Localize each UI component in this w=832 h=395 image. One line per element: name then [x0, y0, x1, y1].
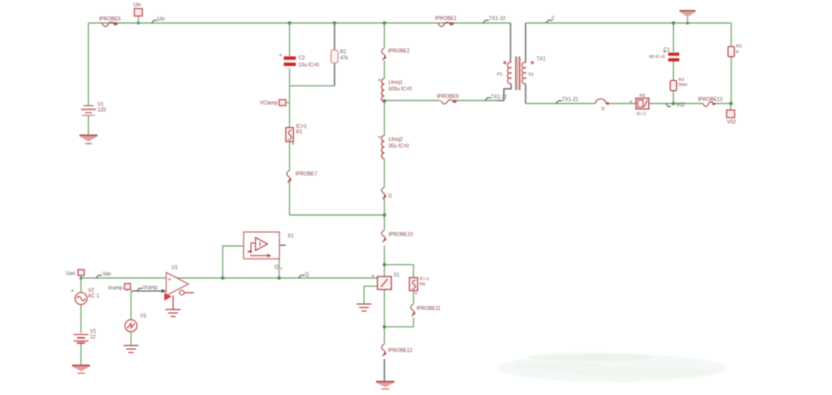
svg-text:R5: R5 — [640, 93, 646, 98]
wire V1 to ground — [87, 116, 89, 135]
svg-text:Q: Q — [305, 272, 309, 278]
tick node Van — [96, 275, 102, 278]
tick node Vramp — [137, 288, 143, 291]
ground top right (earth, filled) — [680, 10, 696, 23]
current probe IPROBE1 — [438, 22, 455, 27]
junction V02 node — [729, 102, 732, 105]
nonlinear resistor R1 — [286, 128, 295, 148]
ground near S1 (lines) — [357, 304, 372, 311]
svg-text:+: + — [372, 274, 375, 280]
svg-text:X1: X1 — [288, 234, 294, 240]
svg-text:+: + — [71, 289, 74, 295]
tick node TX1-11 — [485, 98, 491, 101]
svg-text:R3: R3 — [736, 44, 742, 49]
wire Lfreq2 to probe — [383, 159, 385, 187]
svg-text:Vramp: Vramp — [108, 286, 123, 292]
ground bottom middle (earth, filled) — [376, 381, 395, 389]
resistor R4 — [670, 81, 676, 91]
svg-text:IPROBE5: IPROBE5 — [99, 17, 121, 23]
svg-text:IPROBE11: IPROBE11 — [417, 306, 441, 312]
wire TX1 primary bottom lead — [497, 84, 511, 101]
capacitor C2 — [279, 53, 296, 66]
svg-text:P1: P1 — [497, 72, 503, 77]
svg-text:IPROBE1: IPROBE1 — [435, 16, 457, 22]
svg-text:IC=1: IC=1 — [637, 111, 647, 116]
wire X1 output stub — [279, 244, 285, 246]
wire probeI1 down — [383, 199, 385, 231]
output stub — [184, 292, 194, 294]
tick node 2 — [546, 20, 552, 23]
svg-text:C1: C1 — [664, 48, 671, 54]
svg-text:Uin: Uin — [134, 3, 142, 9]
svg-text:600u IC=0: 600u IC=0 — [389, 87, 412, 93]
svg-text:IPROBE2: IPROBE2 — [388, 49, 410, 55]
tick node TX1-21 — [556, 101, 562, 104]
wire X1 input branch — [223, 246, 244, 278]
ground under V1 (earth, filled) — [80, 135, 98, 144]
wire R2 branch lower (dark) — [334, 63, 336, 86]
wire bottom rail right d — [715, 103, 731, 105]
junction X1 input branch — [221, 276, 224, 279]
svg-text:TX1: TX1 — [537, 57, 546, 63]
wire bottom rail right a — [526, 103, 595, 105]
tick node V02 — [666, 104, 671, 107]
wire node to primary, with jog — [384, 100, 440, 102]
wire R3 branch top — [730, 23, 732, 47]
junction left loop bottom — [383, 213, 386, 216]
svg-text:V3: V3 — [140, 314, 146, 320]
wire Vramp input (selected, grey) — [131, 290, 165, 292]
resistor R2 — [331, 50, 338, 63]
wire bottom rail right c — [649, 103, 703, 105]
wire probe9 to transformer — [456, 100, 497, 102]
svg-text:+: + — [279, 53, 282, 59]
wire S1 ground branch — [364, 286, 377, 303]
current probe I1 — [382, 187, 387, 199]
wire C2 branch below cap — [289, 69, 291, 128]
svg-text:S1: S1 — [394, 273, 400, 279]
ground under U1 (lines) — [166, 310, 181, 317]
op-amp U1 — [164, 273, 194, 310]
current probe I3 — [596, 99, 611, 105]
controlled resistor R6 — [409, 278, 417, 297]
wire R2 branch upper (dark) — [334, 23, 336, 50]
current probe IPROBE11 — [411, 304, 416, 316]
source V3 (ramp) — [125, 320, 137, 332]
svg-text:50m: 50m — [679, 82, 688, 87]
junction R6 branch bottom — [383, 325, 386, 328]
wire V1 drop — [87, 23, 89, 105]
wire S1 down — [383, 289, 385, 344]
ground stem — [172, 296, 174, 310]
wire C1 to R4 — [672, 61, 674, 81]
junction Uin probe stem — [137, 22, 140, 25]
svg-text:IPROBE10: IPROBE10 — [389, 232, 414, 238]
svg-text:V02: V02 — [727, 120, 736, 126]
core — [515, 57, 517, 91]
svg-text:R6: R6 — [420, 282, 426, 287]
svg-text:U1: U1 — [172, 265, 179, 271]
output bubble — [180, 290, 185, 295]
svg-text:Van: Van — [103, 272, 112, 278]
wire V2 to battery — [80, 305, 82, 334]
junction top rail / mid branch — [383, 21, 386, 24]
phase dot primary — [503, 61, 506, 64]
svg-text:Uan: Uan — [66, 271, 75, 277]
wire top rail left — [88, 22, 510, 24]
limiter block X1 — [244, 232, 280, 259]
svg-text:Q: Q — [275, 265, 279, 271]
svg-text:12: 12 — [90, 335, 96, 341]
watermark smudge — [497, 354, 727, 382]
secondary winding S1 — [522, 62, 526, 83]
svg-text:IPROBE13: IPROBE13 — [698, 97, 723, 103]
svg-text:+: + — [415, 291, 418, 297]
svg-text:AC 1: AC 1 — [88, 294, 99, 300]
probe square Uin — [134, 9, 142, 23]
svg-text:9: 9 — [736, 49, 739, 54]
svg-text:I3: I3 — [601, 106, 605, 111]
svg-text:R1: R1 — [296, 130, 303, 136]
current probe IPROBE9 — [441, 99, 458, 104]
switch S1 — [372, 274, 392, 290]
svg-text:90 IC=0: 90 IC=0 — [649, 54, 665, 59]
power corner marker — [164, 293, 172, 301]
wire C2-R2 join — [290, 85, 335, 87]
svg-text:TX1-10: TX1-10 — [489, 16, 506, 22]
wire V2 riser — [80, 278, 82, 293]
tick node TX1-10 — [483, 20, 489, 23]
wire R6 to probe11 — [413, 291, 415, 305]
resistor R3 — [728, 47, 734, 57]
svg-text:I1: I1 — [388, 194, 392, 200]
capacitor C1 — [663, 50, 679, 62]
Vramp input arrowhead — [162, 289, 167, 293]
switch S2 — [630, 98, 649, 109]
svg-text:S1: S1 — [528, 72, 534, 77]
svg-text:IPROBE12: IPROBE12 — [388, 348, 413, 354]
wire R6 branch top — [384, 265, 413, 278]
inductor Lfreq2 — [378, 136, 384, 159]
wire probe7 to bottom — [289, 182, 291, 215]
current probe IPROBE5 — [102, 22, 119, 27]
current probe IPROBE12 — [382, 344, 387, 356]
probe square Uan — [78, 270, 84, 278]
svg-text:C2: C2 — [299, 56, 306, 62]
battery V5 — [74, 335, 89, 344]
svg-text:Lfreq1: Lfreq1 — [389, 80, 403, 86]
wire Qo drop — [278, 259, 280, 278]
probe square V02 — [727, 110, 735, 118]
wire R1 to probe — [289, 142, 291, 171]
wire mid branch top — [383, 23, 385, 48]
current probe IPROBE2 — [382, 48, 387, 60]
svg-text:Vramp: Vramp — [143, 285, 158, 291]
svg-text:+: + — [630, 100, 633, 106]
wire C2 branch upper — [289, 23, 291, 56]
current probe IPROBE10 — [382, 230, 387, 242]
junction top rail / R2 branch — [333, 21, 336, 24]
tick node Uin — [152, 20, 158, 23]
svg-text:IPROBE7: IPROBE7 — [296, 172, 318, 178]
wire V3 to ground — [130, 332, 132, 345]
wire R6 branch bottom — [384, 326, 413, 328]
wire left loop bottom — [290, 214, 385, 216]
wire battery to ground — [80, 343, 82, 365]
wire TX1 secondary bottom lead — [525, 84, 527, 104]
wire R4 to rail — [672, 91, 674, 104]
svg-text:TX1-21: TX1-21 — [562, 97, 579, 103]
wire comparator net — [81, 277, 377, 279]
battery V1 — [81, 106, 96, 116]
wire probe11 to bottom — [413, 318, 415, 327]
junction top rail / C2 branch — [288, 21, 291, 24]
svg-text:120: 120 — [98, 108, 107, 114]
svg-text:2: 2 — [552, 16, 555, 22]
junction Qo drop — [277, 276, 280, 279]
junction Lfreq node — [383, 99, 386, 102]
current probe IPROBE13 — [703, 102, 716, 106]
svg-text:IC=1: IC=1 — [420, 276, 430, 281]
junction R6 branch top — [383, 263, 386, 266]
svg-text:+: + — [292, 142, 295, 148]
junction Van corner — [80, 277, 83, 280]
source V2 (AC) — [75, 293, 87, 305]
current probe IPROBE7 — [287, 171, 292, 183]
wire TX1 primary top lead — [510, 23, 512, 63]
wire R3 to rail — [730, 57, 732, 104]
svg-text:10u IC=0: 10u IC=0 — [299, 63, 320, 69]
probe square VClamp — [279, 100, 289, 106]
svg-text:Lfreq2: Lfreq2 — [389, 137, 403, 143]
svg-text:TX1-11: TX1-11 — [491, 95, 507, 101]
transformer TX1 — [503, 57, 534, 91]
wire probe12 to ground (grey) — [383, 359, 385, 381]
svg-text:30u IC=0: 30u IC=0 — [389, 144, 410, 150]
wire probe10 down — [383, 246, 385, 277]
svg-text:o: o — [280, 266, 283, 271]
svg-text:V02: V02 — [676, 103, 685, 109]
svg-text:+: + — [168, 278, 172, 284]
ground under V3 (lines) — [124, 346, 139, 353]
junction C1 branch / top rail — [672, 21, 675, 24]
inductor Lfreq1 — [378, 79, 384, 102]
wire top rail right — [526, 22, 732, 24]
junction C1 branch / bottom rail — [672, 102, 675, 105]
wire V02 probe stem — [730, 104, 732, 111]
wire bottom rail right b — [611, 103, 636, 105]
svg-text:Uin: Uin — [158, 17, 166, 23]
ground under V2 branch (earth, filled) — [72, 365, 90, 374]
wire TX1 secondary top lead — [525, 23, 527, 63]
probe square Vramp — [124, 284, 130, 291]
wire Lfreq1 to node — [383, 102, 385, 136]
svg-text:IPROBE9: IPROBE9 — [437, 94, 459, 100]
phase dot secondary — [531, 61, 534, 64]
wire C1 branch top — [672, 23, 674, 52]
junction ground / top rail — [686, 22, 689, 25]
wire probe2 to Lfreq1 — [383, 61, 385, 79]
svg-text:47k: 47k — [340, 56, 349, 62]
wire V3 riser — [130, 291, 132, 320]
primary winding P1 — [507, 62, 511, 83]
svg-text:VClamp: VClamp — [260, 101, 278, 107]
tick node Q — [299, 275, 305, 278]
